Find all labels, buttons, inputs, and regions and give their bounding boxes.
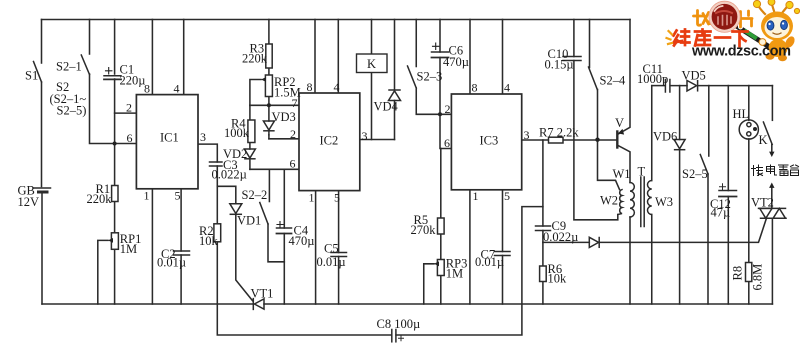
wire IC2 pin8: [314, 20, 316, 94]
label C6: [433, 43, 469, 69]
wire R1 to RP1: [114, 202, 116, 233]
wire C7 to bus: [502, 256, 504, 305]
label R4: [224, 117, 250, 141]
svg-text:W2: W2: [600, 194, 618, 208]
red characters weikuyixia: [674, 30, 748, 47]
wire S1 branch upper: [41, 20, 43, 64]
capacitor C9: [536, 226, 551, 231]
wire base node to W2 top: [598, 140, 620, 190]
wire S2-5 lower to bus: [707, 174, 709, 304]
svg-text:3: 3: [362, 129, 368, 143]
wire C3 to VD1 tap: [216, 166, 218, 186]
wire S2-1 branch lower to IC1 pin6: [90, 74, 115, 144]
wire IC2 pin2 stub: [269, 138, 299, 140]
wire S1 branch lower to battery: [41, 82, 43, 187]
wire R6 link: [542, 242, 544, 266]
capacitor C11: [665, 80, 670, 93]
wire S2-3 lower to IC3 pin2: [416, 88, 451, 114]
svg-text:5: 5: [334, 191, 340, 205]
svg-text:HL: HL: [733, 107, 750, 121]
svg-text:T: T: [638, 165, 646, 179]
svg-text:1M: 1M: [446, 267, 463, 281]
wire S2-2 lower to C4 line: [268, 224, 284, 262]
lamp HL detonator: [739, 120, 758, 139]
label C10: [545, 47, 574, 72]
capacitor C7: [495, 252, 511, 256]
wire IC2 pin4: [337, 20, 339, 94]
wire C1 to R1: [114, 79, 116, 186]
resistor R6: [540, 266, 547, 282]
label C1: [106, 63, 146, 88]
label R3: [242, 42, 268, 66]
label S2 group: [50, 80, 87, 118]
wire VD4 line lower: [394, 101, 396, 140]
resistor R1: [112, 186, 118, 202]
relay K coil box: [357, 54, 388, 73]
label R2: [199, 224, 219, 248]
svg-text:8: 8: [307, 80, 313, 94]
svg-text:W3: W3: [655, 195, 673, 209]
svg-text:1M: 1M: [120, 242, 137, 256]
wire RP2 to IC2 pin7: [268, 97, 270, 106]
wire S2-2 upper from pin6 stub: [268, 169, 270, 201]
op-amp IC1: [136, 95, 198, 189]
wire S2-1 branch upper: [89, 20, 91, 55]
wire C4 to bus: [283, 234, 285, 305]
svg-text:4: 4: [504, 81, 510, 95]
wire right rail VD5 to K corner: [698, 85, 772, 87]
svg-text:12V: 12V: [18, 195, 40, 209]
glyph zhao: [694, 11, 711, 26]
label C5: [317, 242, 346, 270]
svg-text:8: 8: [144, 82, 150, 96]
wire R6 to bus: [542, 282, 544, 305]
svg-text:10k: 10k: [199, 234, 219, 248]
wire emitter line to W1: [618, 145, 630, 182]
wire C6 line rail to C6: [439, 20, 441, 53]
label RP2: [274, 75, 301, 100]
svg-text:R7 2.2k: R7 2.2k: [539, 126, 579, 140]
svg-text:S2–5): S2–5): [57, 104, 87, 118]
svg-text:R8: R8: [731, 266, 745, 281]
wire IC1 pin3 to C3: [198, 144, 217, 162]
wire right rail C11 to VD5: [670, 85, 687, 87]
wire battery to bus: [41, 193, 43, 304]
relay contact K: [763, 122, 774, 157]
wire RP1 wiper line: [98, 240, 108, 304]
transformer T core: [641, 177, 644, 227]
svg-text:0.022µ: 0.022µ: [543, 230, 578, 244]
capacitor C1: [104, 76, 121, 80]
wire VD1 branch: [217, 186, 236, 203]
wire VD3 link pin7 to pin2: [268, 105, 270, 121]
switch S2-2: [260, 203, 268, 225]
switch S2-4: [589, 67, 598, 90]
label C11: [637, 62, 668, 86]
wire IC2 pin7 stub: [250, 104, 299, 106]
transistor V: [617, 129, 624, 148]
svg-text:1: 1: [144, 189, 150, 203]
svg-text:8: 8: [472, 81, 478, 95]
svg-text:0.01µ: 0.01µ: [475, 255, 504, 269]
svg-text:VD6: VD6: [653, 130, 677, 144]
resistor R7: [549, 137, 564, 143]
svg-text:2: 2: [290, 127, 296, 141]
pins IC1: [126, 82, 206, 203]
svg-text:6: 6: [127, 131, 133, 145]
glyph pian: [741, 11, 753, 27]
wire bottom ground bus left segment: [42, 303, 253, 305]
svg-text:10k: 10k: [548, 272, 568, 286]
detonator terminal arrow: [769, 183, 774, 188]
wire W1 to bus: [629, 217, 631, 304]
svg-text:IC2: IC2: [320, 134, 339, 148]
wire C4 line from pin6 stub: [283, 169, 285, 228]
resistor R4: [248, 120, 255, 143]
wire IC1 pin2 stub: [115, 112, 137, 114]
wire IC1 pin6 stub: [115, 143, 137, 145]
op-amp IC3: [451, 94, 521, 190]
wire C8 to C9 branch: [396, 207, 543, 335]
label C3: [212, 158, 247, 182]
thyristor VT1: [253, 299, 264, 310]
magnifier with xin: [709, 1, 740, 32]
wire IC2 pin1 to bus: [315, 191, 317, 304]
wire VD6 line lower to bus: [679, 151, 681, 305]
wire RP1 to bus: [114, 249, 116, 304]
switch S2-1: [81, 55, 89, 75]
wire VD3 to pin2 stub: [268, 135, 270, 139]
gate diode: [589, 237, 599, 247]
label C9: [543, 219, 578, 244]
capacitor C5: [331, 253, 347, 257]
svg-text:IC1: IC1: [160, 131, 179, 145]
wire VD2 to IC2 pin6 stub: [249, 159, 251, 170]
speed dashes: [667, 31, 673, 44]
wire K contact arrow stub: [771, 145, 773, 153]
svg-text:W1: W1: [613, 167, 631, 181]
svg-text:C5: C5: [324, 242, 339, 256]
svg-text:0.01µ: 0.01µ: [317, 255, 346, 269]
svg-text:1: 1: [309, 191, 315, 205]
svg-text:S2–4: S2–4: [600, 74, 626, 88]
wire R3 to RP2: [268, 69, 270, 76]
svg-text:V: V: [615, 116, 624, 130]
wire IC3 pin4: [502, 20, 504, 95]
svg-text:VT1: VT1: [251, 287, 274, 301]
svg-text:VD5: VD5: [682, 69, 706, 83]
svg-text:0.01µ: 0.01µ: [157, 256, 186, 270]
svg-text:270k: 270k: [411, 223, 437, 237]
svg-text:470µ: 470µ: [289, 234, 315, 248]
capacitor C12: [719, 184, 737, 197]
svg-text:6: 6: [444, 136, 450, 150]
switch S2-5: [700, 155, 708, 175]
junction node base: [595, 138, 599, 142]
wire S2-4 upper: [589, 20, 591, 68]
wire R2 to C8: [217, 242, 391, 335]
wire HL to R8: [748, 139, 750, 263]
wire RP2 wiper line: [250, 80, 261, 106]
svg-text:1: 1: [473, 189, 479, 203]
svg-text:100k: 100k: [224, 126, 250, 140]
wire IC1 pin8: [151, 20, 153, 95]
potentiometer RP3: [434, 260, 444, 276]
wire K contact upper: [771, 86, 773, 121]
resistor R8: [746, 263, 752, 282]
magnifier handle: [738, 27, 768, 46]
label GB: [18, 184, 40, 210]
label R8 rotated: [731, 264, 765, 291]
wire VD6 line upper: [679, 86, 681, 140]
label RP1: [120, 232, 142, 256]
primary winding W1: [630, 183, 634, 218]
svg-text:VD2: VD2: [223, 147, 247, 161]
potentiometer RP1: [108, 233, 118, 250]
wire RP3 wiper line: [424, 264, 434, 304]
junction node IC3 pin2: [438, 112, 442, 116]
capacitor C3: [210, 162, 223, 166]
svg-text:4: 4: [334, 80, 340, 94]
pins IC2: [290, 80, 368, 205]
wire VT2 to bus corner: [771, 218, 773, 304]
wire C9 line from pin3 node: [542, 140, 544, 226]
wire C6 to pin2 stub: [439, 58, 441, 115]
switch S1: [34, 62, 42, 83]
wire pin7 to R4: [249, 105, 251, 120]
svg-text:0.022µ: 0.022µ: [212, 168, 247, 182]
svg-text:4: 4: [174, 82, 180, 96]
svg-text:5: 5: [504, 189, 510, 203]
wire C3 line to R2: [216, 186, 218, 224]
wire gate line after diode: [600, 219, 766, 242]
svg-text:VD4: VD4: [374, 100, 399, 114]
watermark logo dzsc: [667, 0, 800, 61]
op-amp IC2: [299, 93, 360, 191]
feedback winding W2: [618, 190, 622, 215]
svg-text:VD1: VD1: [237, 214, 261, 228]
battery GB: [34, 188, 51, 192]
svg-text:S1: S1: [25, 69, 38, 83]
svg-text:6: 6: [290, 157, 296, 171]
wire HL line upper: [748, 86, 750, 121]
wire pin2 to pin6 corner: [440, 114, 451, 148]
svg-text:3: 3: [524, 128, 530, 142]
svg-text:220k: 220k: [242, 52, 268, 66]
wire IC3 pin1 to bus: [469, 190, 471, 304]
svg-text:S2–2: S2–2: [242, 188, 268, 202]
svg-text:5: 5: [175, 189, 181, 203]
svg-text:S2–5: S2–5: [682, 167, 708, 181]
wire pin6 corner to R5: [440, 149, 442, 219]
wire S2-3 upper: [415, 20, 417, 67]
mascot robot: [753, 0, 799, 61]
label C12: [710, 197, 731, 220]
wire relay K line lower: [371, 73, 373, 140]
pins IC3: [444, 81, 530, 204]
wire IC3 pin3 to R7: [522, 139, 549, 141]
svg-text:0.15µ: 0.15µ: [545, 58, 574, 72]
svg-text:220k: 220k: [87, 192, 113, 206]
wire collector line: [618, 20, 630, 135]
svg-text:220µ: 220µ: [120, 74, 146, 88]
svg-text:1000p: 1000p: [637, 72, 668, 86]
junction node IC2 pin7: [267, 103, 271, 107]
diode VD2: [244, 149, 255, 159]
wire C9 to gate node: [542, 231, 544, 243]
label RP3: [446, 257, 468, 281]
wire S2-5 upper: [708, 86, 710, 156]
wire R7 to transistor base: [563, 139, 616, 141]
svg-text:IC3: IC3: [480, 134, 499, 148]
wire IC1 pin5 to C2: [180, 189, 182, 251]
wire bottom ground bus right segment: [264, 303, 772, 305]
capacitor C8: [392, 330, 404, 342]
svg-text:S2–3: S2–3: [417, 70, 443, 84]
svg-text:2: 2: [126, 101, 132, 115]
diode VD3: [263, 121, 274, 135]
wire C5 to bus: [338, 257, 340, 305]
svg-text:2: 2: [445, 102, 451, 116]
svg-text:3: 3: [200, 130, 206, 144]
wire gate line C9 node to VT2: [543, 241, 589, 243]
label R1: [87, 182, 113, 206]
secondary winding W3: [648, 181, 652, 215]
wire C2 to bus: [180, 255, 182, 304]
wire C12 line upper: [727, 86, 729, 191]
wire IC3 pin5 to C7: [502, 190, 504, 252]
resistor R5: [438, 218, 445, 234]
capacitor C6: [432, 52, 449, 58]
wire IC2 pin6 stub: [250, 168, 299, 170]
label detonator text: [752, 165, 799, 176]
wire VD4 line upper: [394, 20, 396, 90]
label C2: [157, 247, 186, 270]
svg-text:www.dzsc.com: www.dzsc.com: [691, 44, 791, 60]
svg-text:VD3: VD3: [272, 110, 296, 124]
svg-text:VT2: VT2: [751, 196, 774, 210]
wire R3 line rail to R3: [268, 20, 270, 45]
diode VD6: [674, 140, 685, 150]
wire R5 to RP3: [440, 234, 442, 260]
svg-text:47µ: 47µ: [711, 206, 731, 220]
wire C1 line rail to C1: [114, 20, 116, 75]
switch S2-3: [408, 66, 417, 88]
wire R8 to bus: [748, 282, 750, 305]
wire W3 to bus: [651, 215, 653, 305]
wire IC2 pin5 to C5: [338, 191, 340, 253]
svg-text:7: 7: [292, 96, 298, 110]
wire C10 to W2 bottom: [574, 61, 618, 220]
wire IC1 pin4: [183, 20, 185, 95]
label R5: [411, 213, 437, 237]
svg-text:C8 100µ: C8 100µ: [377, 317, 421, 331]
wire detonator arrow stub to VT2: [771, 187, 773, 208]
capacitor C2: [174, 251, 190, 255]
label C4: [277, 222, 314, 249]
triac VT2: [759, 208, 787, 218]
wire R4 to VD2: [249, 143, 251, 150]
diode VD5: [687, 81, 698, 92]
wire right rail segment left of C11: [652, 85, 665, 87]
capacitor C10: [563, 57, 581, 61]
label C7: [475, 248, 504, 270]
resistor R2: [214, 224, 221, 242]
junction node IC1 pin6: [113, 142, 117, 146]
wire IC1 pin1 to bus: [151, 189, 153, 304]
resistor R3: [266, 44, 272, 68]
svg-text:K: K: [367, 57, 376, 71]
wire relay K line upper: [371, 20, 373, 55]
diode VD4: [389, 90, 401, 101]
capacitor C4: [277, 228, 292, 234]
svg-text:K: K: [759, 133, 768, 147]
wire RP3 to bus: [440, 276, 442, 305]
wire C12 to bus: [727, 197, 729, 305]
wire W3 line to right rail: [651, 86, 653, 181]
wire VD1 to VT1 gate: [236, 214, 253, 300]
wire top supply rail: [42, 19, 631, 21]
svg-text:470µ: 470µ: [443, 55, 469, 69]
wire IC2 pin3 to VD4: [360, 139, 395, 141]
wire S2-4 lower to base node: [597, 90, 599, 140]
svg-text:S2–1: S2–1: [56, 60, 82, 74]
diode VD1: [230, 204, 242, 215]
label R6: [548, 262, 568, 286]
svg-text:6.8M: 6.8M: [751, 264, 765, 291]
potentiometer RP2: [261, 75, 272, 97]
wire IC3 pin8: [469, 20, 471, 95]
wire C10 line rail to C10: [573, 20, 575, 57]
